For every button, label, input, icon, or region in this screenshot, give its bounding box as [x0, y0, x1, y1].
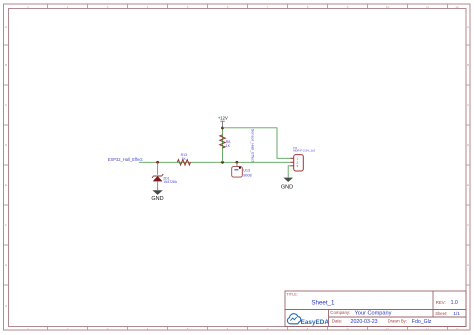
svg-text:B: B [5, 63, 7, 67]
svg-text:2020-03-23: 2020-03-23 [351, 319, 378, 325]
EasyEDA logo [287, 314, 329, 326]
node junction at +12V [221, 127, 224, 130]
resistor R13 [177, 153, 190, 165]
ground GND1 [151, 190, 163, 202]
connector H7 [290, 146, 315, 171]
svg-text:10: 10 [386, 5, 390, 9]
node junction at R8 [221, 161, 224, 164]
svg-text:Sheet:: Sheet: [435, 311, 447, 316]
svg-text:F: F [467, 223, 469, 227]
svg-text:REV:: REV: [436, 300, 446, 305]
svg-text:Fdo_Glz: Fdo_Glz [412, 319, 432, 325]
svg-text:G: G [467, 263, 470, 267]
svg-text:Date:: Date: [332, 319, 343, 324]
node junction at U13 [236, 161, 239, 164]
svg-text:Your Company: Your Company [355, 311, 392, 317]
svg-text:1/1: 1/1 [453, 311, 460, 317]
svg-text:H: H [5, 304, 7, 308]
svg-text:1K: 1K [226, 144, 231, 148]
svg-text:Sensor_Hall_Effect: Sensor_Hall_Effect [250, 129, 255, 163]
svg-text:10: 10 [386, 327, 390, 331]
node junction at zener [156, 161, 159, 164]
svg-text:U13: U13 [243, 168, 250, 172]
svg-text:C: C [467, 103, 470, 107]
wire zener branch [157, 162, 159, 175]
svg-text:E: E [5, 183, 7, 187]
svg-text:Sheet_1: Sheet_1 [311, 300, 335, 307]
svg-text:G: G [5, 263, 8, 267]
svg-text:Drawn By:: Drawn By: [388, 319, 407, 324]
svg-text:D: D [5, 143, 8, 147]
ground GND2 [281, 178, 293, 191]
svg-text:12: 12 [455, 5, 459, 9]
svg-text:HDR-F-2.54_1x3: HDR-F-2.54_1x3 [293, 149, 315, 153]
svg-text:C: C [5, 103, 8, 107]
wire +12V branch to header pin 1 [223, 128, 291, 159]
svg-text:9008: 9008 [243, 174, 251, 178]
sensor U13 [232, 167, 252, 178]
svg-text:1.0: 1.0 [451, 300, 458, 306]
svg-text:1N4728A: 1N4728A [163, 180, 178, 184]
svg-text:EasyEDA: EasyEDA [301, 319, 330, 326]
power flag +12V [218, 115, 228, 128]
wire header pin 3 to ground [288, 166, 290, 178]
svg-text:TITLE:: TITLE: [286, 292, 297, 296]
wire main horizontal net [139, 161, 290, 163]
svg-text:A: A [467, 25, 469, 29]
svg-text:11: 11 [426, 327, 429, 331]
title block outline [285, 291, 466, 327]
resistor R8 [220, 128, 231, 162]
svg-text:D: D [467, 143, 470, 147]
svg-text:GND: GND [281, 185, 293, 191]
svg-text:Company:: Company: [330, 310, 350, 315]
svg-text:GND: GND [151, 196, 163, 202]
svg-text:+12V: +12V [218, 115, 228, 120]
svg-text:12: 12 [455, 327, 459, 331]
svg-text:E: E [467, 183, 469, 187]
svg-text:ESP32_Hall_Effect: ESP32_Hall_Effect [108, 157, 144, 162]
zener diode ZD1 [152, 174, 178, 190]
svg-text:1K: 1K [182, 157, 187, 161]
svg-text:B: B [467, 63, 469, 67]
svg-text:A: A [5, 25, 7, 29]
svg-text:F: F [5, 223, 7, 227]
wire stub to U13 [236, 162, 238, 166]
svg-text:11: 11 [426, 5, 429, 9]
